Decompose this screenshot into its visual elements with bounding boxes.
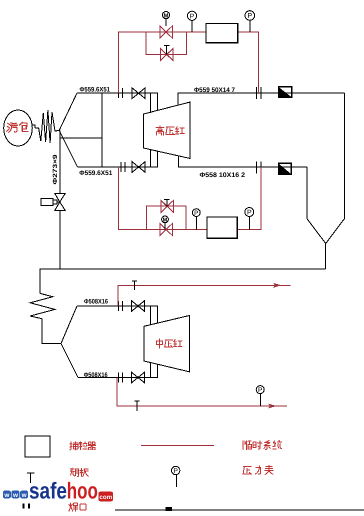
label legend 临时系统 — [243, 441, 251, 450]
weld joint lower HP line — [121, 162, 125, 172]
marker square on bottom line — [166, 507, 172, 511]
node upper IP line — [77, 305, 158, 307]
attemperator box top loop — [206, 23, 238, 42]
wire reheater funnel — [307, 93, 345, 244]
handle T bottom bypass valve — [164, 200, 170, 207]
valve drum drain (vertical) — [55, 194, 65, 211]
label legend 压力表 — [243, 467, 252, 475]
valve lower IP main — [131, 372, 144, 383]
weld joint upper exhaust — [257, 87, 262, 99]
valve upper IP main — [131, 301, 144, 312]
motor actuator M top — [162, 12, 169, 19]
valve bypass bottom loop — [161, 200, 174, 212]
wire diagonal to upper HP line — [59, 93, 77, 130]
svg-text:w: w — [12, 492, 18, 499]
HP inlet stub top — [151, 93, 158, 113]
HP inlet stub bottom — [151, 150, 158, 167]
particle catcher upper (box with triangle) — [279, 87, 292, 98]
logo com box — [98, 492, 113, 502]
gauge P lower temporary line — [256, 386, 264, 394]
handle T top bypass valve — [164, 45, 170, 54]
wire diagonal to lower HP line — [59, 130, 77, 167]
svg-text:P: P — [247, 11, 252, 20]
svg-text:Φ273×9: Φ273×9 — [52, 154, 59, 185]
legend flap T symbol — [27, 473, 34, 483]
wire IP lower temporary line — [117, 378, 287, 407]
wire diagonal to lower IP line — [61, 344, 78, 378]
wire IP upper temporary line — [118, 285, 291, 306]
motor actuator M bottom — [162, 216, 169, 223]
svg-text:safe: safe — [29, 477, 67, 503]
valve motor top loop — [160, 26, 172, 38]
svg-text:Φ559 50X14 7: Φ559 50X14 7 — [194, 87, 235, 94]
label HP cylinder 高压缸 — [156, 126, 164, 135]
turbine IP cylinder — [144, 316, 189, 372]
wire drum to coil — [32, 125, 35, 128]
IP inlet stub bottom — [150, 363, 157, 378]
svg-text:Φ558 10X16 2: Φ558 10X16 2 — [200, 172, 246, 179]
valve motor bottom loop — [160, 224, 172, 236]
gauge P1 top loop — [187, 11, 196, 20]
border bottom line — [115, 509, 364, 511]
wire drum downcomer — [59, 130, 61, 269]
svg-text:P: P — [173, 468, 178, 475]
wire funnel drain — [325, 244, 327, 270]
svg-text:hoo: hoo — [67, 477, 98, 503]
svg-text:M: M — [164, 12, 169, 19]
turbine HP cylinder — [144, 102, 191, 159]
valve bypass top loop — [161, 49, 174, 61]
steam drum — [4, 110, 33, 146]
wire HP bypass top loop — [119, 32, 259, 93]
weld joint lower exhaust — [257, 162, 262, 174]
svg-text:w: w — [21, 492, 27, 499]
logo www boxes — [3, 491, 28, 499]
arrow upper temporary line — [273, 283, 281, 288]
wire HP bypass bottom loop — [119, 167, 262, 229]
wire reheat down to IP fan — [42, 319, 61, 344]
svg-text:P: P — [190, 13, 195, 20]
valve lower HP main — [132, 162, 145, 173]
flap symbol upper temporary line — [132, 281, 137, 290]
wire bottom loop bypass branch — [147, 206, 187, 229]
node upper HP steam line — [77, 92, 158, 94]
wire top loop bypass branch — [146, 32, 186, 55]
svg-text:P: P — [247, 210, 252, 217]
legend particle catcher box — [25, 436, 50, 457]
weld joint upper HP line — [119, 88, 123, 98]
IP inlet stub top — [150, 306, 157, 325]
svg-text:Φ559.6X51: Φ559.6X51 — [79, 170, 112, 177]
svg-text:Φ559.6X51: Φ559.6X51 — [80, 87, 111, 94]
svg-text:com: com — [99, 494, 112, 501]
svg-text:Φ508X16: Φ508X16 — [84, 372, 108, 379]
gauge P2 top loop — [245, 11, 255, 21]
wire HP bottom exhaust — [178, 156, 307, 168]
svg-text:Φ508X16: Φ508X16 — [84, 299, 108, 306]
drum coil zigzag — [35, 110, 59, 143]
gauge P2 bottom loop — [245, 208, 254, 217]
wire equalizer bridge — [60, 93, 102, 167]
wire HP top exhaust — [178, 93, 344, 105]
label steam drum 汽包 — [7, 123, 18, 132]
reheater coil zigzag — [30, 293, 55, 318]
attemperator box bottom loop — [207, 217, 237, 238]
label IP cylinder 中压缸 — [156, 339, 162, 348]
actuator drain valve — [41, 198, 53, 205]
svg-text:w: w — [3, 492, 9, 499]
node lower IP line — [78, 377, 158, 379]
weld joint lower IP line — [119, 373, 123, 383]
legend weld joint symbol — [24, 504, 30, 509]
flap symbol lower temporary line — [134, 401, 139, 411]
label legend 捕粒器 — [70, 442, 79, 450]
arrow lower temporary line — [268, 404, 276, 409]
label legend 焊口 — [69, 503, 78, 511]
legend gauge P — [172, 466, 180, 474]
node lower HP steam line — [78, 166, 158, 168]
gauge P1 bottom loop — [192, 209, 200, 217]
svg-text:M: M — [163, 218, 168, 224]
weld joint upper IP line — [119, 301, 123, 311]
label legend 翘板 — [70, 468, 78, 476]
svg-text:P: P — [258, 387, 263, 394]
valve upper HP main — [132, 88, 145, 99]
wire diagonal to upper IP line — [61, 306, 77, 344]
particle catcher lower (box with triangle) — [279, 163, 292, 174]
legend temporary system line — [141, 444, 214, 446]
wire hot reheat long line — [40, 269, 326, 293]
svg-text:P: P — [194, 210, 198, 217]
